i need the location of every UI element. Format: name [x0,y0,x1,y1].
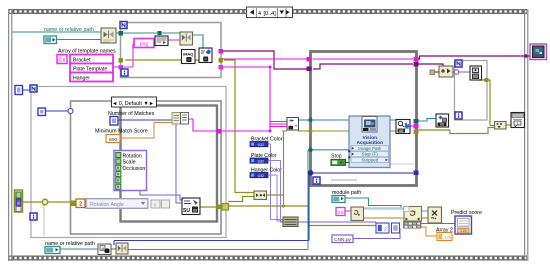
svg-text:Occlusion: Occlusion [123,166,146,172]
svg-text:U32: U32 [258,143,264,147]
svg-text:2: 2 [79,202,82,208]
svg-text:Plate Template: Plate Template [73,66,107,72]
svg-text:1.23: 1.23 [460,229,467,233]
svg-text:68: 68 [399,129,403,133]
svg-text:Vision: Vision [363,135,378,141]
svg-text:Stop: Stop [331,153,342,159]
svg-text:3.6: 3.6 [337,210,344,215]
svg-text:Rotation: Rotation [123,153,142,159]
svg-text:Bracket: Bracket [73,57,91,63]
svg-text:F: F [340,160,343,165]
svg-text:Predict score: Predict score [451,210,482,216]
svg-text:800: 800 [109,137,117,143]
svg-text:!: ! [517,121,518,126]
svg-text:◄ 0, Default ▼►: ◄ 0, Default ▼► [112,101,154,107]
svg-text:1.23: 1.23 [444,236,451,240]
svg-text:U32: U32 [258,159,264,163]
svg-text:IMAQ: IMAQ [183,52,193,57]
svg-text:Scale: Scale [123,160,136,166]
svg-text:Minimum Match Score: Minimum Match Score [95,129,148,135]
svg-text:[0..4]: [0..4] [264,11,277,17]
svg-text:U32: U32 [258,174,264,178]
svg-text:68: 68 [193,209,197,213]
svg-text:name or relative path: name or relative path [44,27,94,33]
svg-text:SU: SU [183,208,190,214]
svg-text:Image Path: Image Path [358,146,382,151]
svg-text:4: 4 [258,11,261,17]
svg-text:png: png [140,41,149,47]
svg-text:Hanger: Hanger [73,75,90,81]
svg-text:CNN.py: CNN.py [334,237,351,243]
svg-text:68: 68 [440,123,444,127]
svg-text:Rotation Angle: Rotation Angle [90,202,124,208]
svg-text:Stop (F): Stop (F) [362,152,379,157]
svg-text:Stopped: Stopped [361,158,378,163]
svg-text:d: d [101,247,103,251]
svg-text:Array of template names: Array of template names [58,49,116,55]
